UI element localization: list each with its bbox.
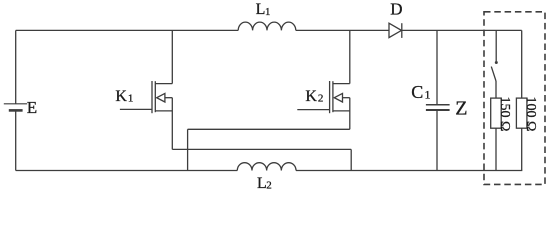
- svg-text:L: L: [256, 1, 266, 18]
- svg-text:2: 2: [318, 92, 324, 104]
- svg-text:K: K: [305, 88, 317, 105]
- svg-text:D: D: [390, 0, 402, 19]
- svg-text:100 Ω: 100 Ω: [523, 97, 538, 132]
- svg-text:150 Ω: 150 Ω: [497, 97, 512, 132]
- svg-text:C: C: [411, 82, 423, 102]
- svg-text:Z: Z: [455, 97, 467, 119]
- svg-text:K: K: [115, 88, 127, 105]
- svg-text:2: 2: [266, 180, 272, 191]
- svg-text:1: 1: [128, 92, 133, 104]
- svg-text:1: 1: [265, 6, 271, 18]
- svg-text:E: E: [27, 98, 37, 117]
- svg-text:1: 1: [425, 87, 431, 101]
